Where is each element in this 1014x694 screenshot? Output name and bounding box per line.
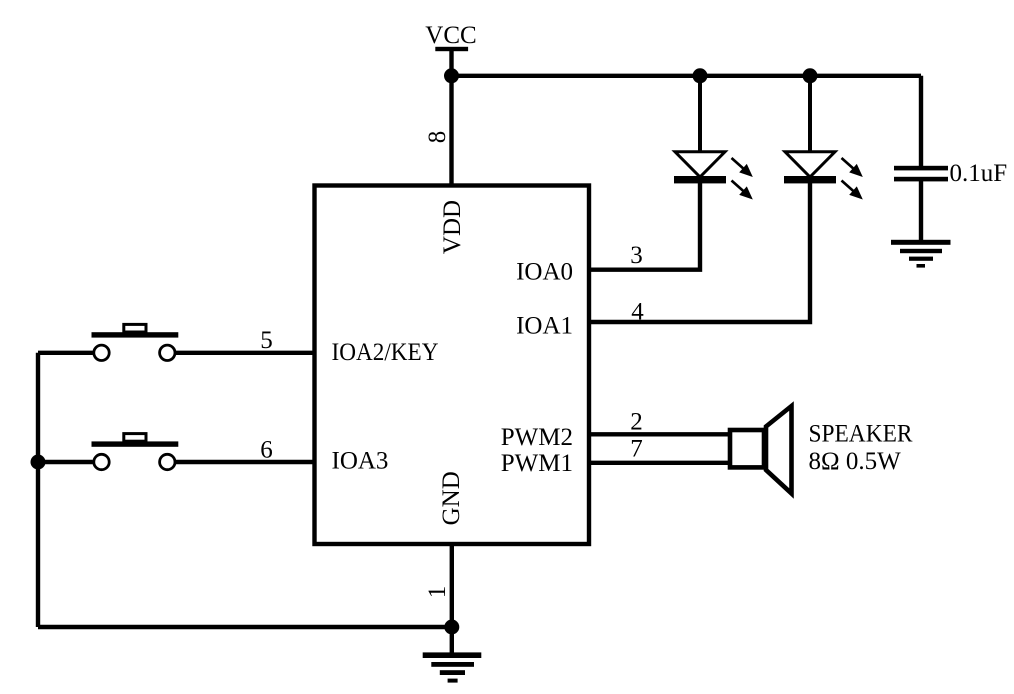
node junction at left rail <box>31 455 46 470</box>
wire VDD vertical from VCC to IC pin 8 <box>449 50 453 187</box>
node junction at VCC <box>444 68 459 83</box>
switch S1 pushbutton <box>92 324 179 360</box>
wire VCC rail to capacitor <box>919 76 923 167</box>
svg-text:IOA1: IOA1 <box>516 313 573 340</box>
wire IC pin 7 to speaker <box>589 461 730 465</box>
wire LED1 cathode to pin 3 <box>589 183 700 270</box>
pin label GND <box>438 471 465 525</box>
VCC power symbol bar <box>435 47 468 51</box>
svg-text:4: 4 <box>631 298 644 325</box>
svg-text:IOA0: IOA0 <box>516 258 573 285</box>
wire left rail to switch S2 <box>38 460 93 464</box>
wire left vertical rail <box>36 353 40 627</box>
wire LED2 anode <box>808 76 812 152</box>
pin number 1 <box>424 586 451 599</box>
svg-text:0.1uF: 0.1uF <box>950 160 1008 187</box>
svg-text:PWM2: PWM2 <box>501 424 573 451</box>
wire left rail to switch S1 <box>38 351 93 355</box>
switch S2 pushbutton <box>92 434 179 470</box>
svg-text:5: 5 <box>260 327 273 354</box>
svg-text:8: 8 <box>424 131 451 144</box>
wire IC pin 2 to speaker <box>589 432 730 436</box>
svg-text:3: 3 <box>630 242 643 269</box>
svg-text:6: 6 <box>260 437 273 464</box>
svg-text:IOA2/KEY: IOA2/KEY <box>332 339 439 366</box>
svg-text:SPEAKER: SPEAKER <box>809 420 913 447</box>
op-chip U1 body <box>315 186 590 545</box>
node junction at LED1 <box>693 68 708 83</box>
wire capacitor to ground <box>919 181 923 241</box>
wire LED1 anode <box>698 76 702 152</box>
wire bottom horizontal to ground node <box>38 625 452 629</box>
node junction at ground <box>444 620 459 635</box>
LED D2 <box>784 152 863 200</box>
wire top rail VCC horizontal <box>452 74 922 78</box>
svg-text:IOA3: IOA3 <box>332 447 389 474</box>
svg-text:7: 7 <box>630 435 643 462</box>
speaker LS1 <box>730 406 792 494</box>
svg-text:VCC: VCC <box>425 22 476 49</box>
svg-text:2: 2 <box>630 409 643 436</box>
node junction at LED2 <box>803 68 818 83</box>
wire switch S1 to IC pin 5 <box>176 351 315 355</box>
capacitor C1 <box>894 166 948 182</box>
ground symbol at capacitor <box>891 240 951 268</box>
svg-text:GND: GND <box>438 471 465 525</box>
svg-text:1: 1 <box>424 586 451 599</box>
wire LED2 cathode to pin 4 <box>589 183 810 322</box>
pin label VDD <box>439 200 466 254</box>
ground symbol at IC <box>423 652 482 682</box>
svg-text:VDD: VDD <box>439 200 466 254</box>
wire IC pin 1 GND vertical <box>450 544 454 655</box>
svg-text:PWM1: PWM1 <box>501 450 573 477</box>
wire switch S2 to IC pin 6 <box>176 460 315 464</box>
pin number 8 <box>424 131 451 144</box>
LED D1 <box>674 152 753 200</box>
svg-text:8Ω 0.5W: 8Ω 0.5W <box>809 448 902 475</box>
